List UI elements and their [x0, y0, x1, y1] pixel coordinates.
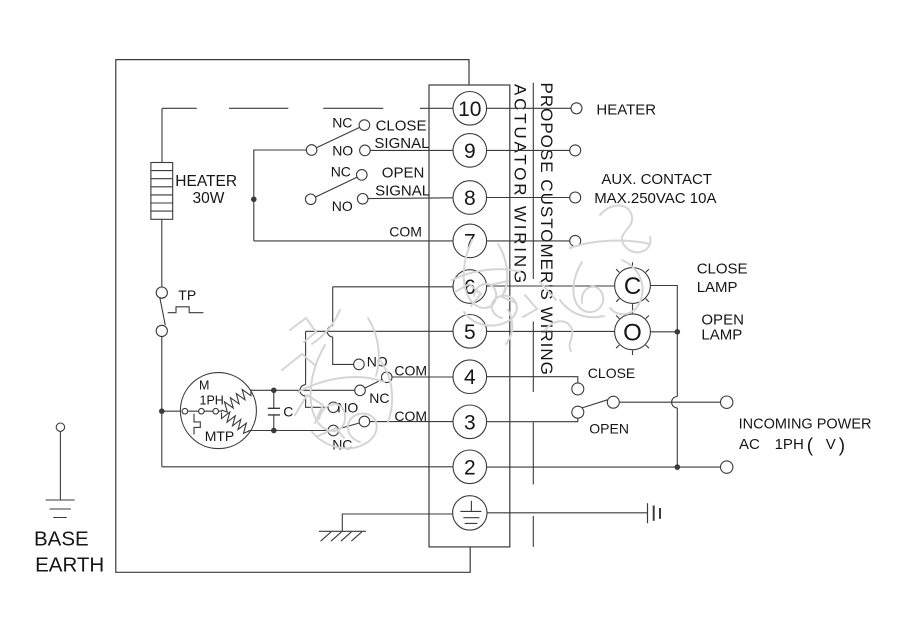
svg-text:NC: NC: [332, 114, 352, 130]
svg-text:NC: NC: [369, 390, 389, 406]
open lamp O: [615, 309, 651, 355]
svg-text:V: V: [826, 436, 836, 453]
wire terminal 6 to close lamp: [487, 285, 615, 287]
svg-text:HEATER: HEATER: [596, 102, 656, 119]
svg-text:10: 10: [458, 98, 481, 121]
svg-text:4: 4: [464, 366, 476, 389]
motor thermal MTP symbol: [194, 414, 200, 435]
svg-text:EARTH: EARTH: [35, 553, 104, 576]
motor M1 1PH: [180, 373, 256, 449]
customer stub circle aux2: [570, 192, 581, 203]
motor winding lower: [222, 412, 250, 433]
svg-text:COM: COM: [389, 224, 422, 240]
hop over terminal5 wire: [327, 326, 333, 337]
wire lamp bus: [650, 286, 677, 468]
direction switch S4 to terminal 3: [328, 402, 370, 436]
wire terminal 3 to open contact: [487, 418, 578, 422]
hop lamp bus over power wire: [672, 397, 678, 408]
wire terminal 9 right: [487, 149, 570, 151]
svg-text:1PH: 1PH: [200, 394, 224, 408]
terminal ground symbol: [460, 501, 481, 524]
svg-text:C: C: [624, 273, 641, 300]
wire motor bottom to NC: [249, 430, 329, 432]
junction dot power bus: [675, 464, 681, 470]
actuator enclosure outline: [116, 60, 470, 573]
wire heater to TP: [161, 219, 163, 287]
svg-text:MTP: MTP: [205, 428, 235, 444]
wire ground right: [487, 512, 647, 514]
svg-text:9: 9: [464, 140, 476, 163]
svg-text:SIGNAL: SIGNAL: [374, 135, 429, 152]
wire terminal 7 right: [487, 240, 570, 242]
heater R1 30W resistor: [151, 163, 173, 220]
thermal protector TP switch: [156, 287, 167, 337]
watermark overlay: [282, 205, 651, 448]
svg-text:C: C: [283, 404, 293, 420]
terminal block outline: [429, 85, 510, 547]
wire TP to terminal 2 run: [161, 337, 163, 467]
junction dot capacitor bottom: [271, 428, 277, 434]
earth symbol right (bars): [648, 503, 661, 523]
wire COM3 to terminal 3: [370, 421, 453, 423]
wire terminal 5 to open lamp: [487, 330, 615, 332]
svg-text:INCOMING POWER: INCOMING POWER: [739, 417, 872, 433]
wire terminal 2 left: [162, 466, 453, 468]
earth symbol left (hatched): [319, 531, 366, 541]
wire heater drop: [161, 108, 163, 162]
junction dot capacitor top: [271, 388, 277, 394]
terminal 3: [453, 405, 487, 439]
wire open NO to terminal 8: [368, 197, 453, 200]
wire dashed heater line to terminal 10: [162, 107, 453, 109]
terminal 10: [453, 92, 487, 126]
motor winding upper: [222, 390, 252, 413]
svg-text:3: 3: [464, 411, 476, 434]
svg-text:OPEN: OPEN: [589, 420, 629, 436]
svg-text:MAX.250VAC 10A: MAX.250VAC 10A: [594, 190, 716, 207]
junction dot TP-motor: [159, 408, 165, 414]
wire close NO to terminal 9: [370, 149, 453, 151]
svg-text:O: O: [623, 320, 642, 347]
customer stub circle aux1: [570, 145, 581, 156]
svg-text:AUX. CONTACT: AUX. CONTACT: [601, 171, 712, 188]
svg-text:AC: AC: [739, 436, 760, 453]
incoming power terminal L: [721, 396, 733, 408]
svg-text:NC: NC: [331, 164, 351, 180]
wire terminal 4 to close contact: [487, 377, 578, 383]
terminal 4: [453, 360, 487, 394]
wire ground left: [342, 514, 453, 531]
svg-text:SIGNAL: SIGNAL: [375, 183, 430, 200]
open signal limit switch S2: [305, 170, 368, 205]
wire close common bus: [254, 150, 306, 241]
wire terminal 8 right: [487, 197, 570, 199]
customer stub circle heater: [571, 103, 582, 114]
selector switch close/open: [572, 383, 620, 418]
hop over motor top wire: [300, 385, 306, 396]
customer stub circle com: [570, 235, 581, 246]
svg-text:CLOSE: CLOSE: [588, 365, 635, 381]
TP pulse symbol: [168, 307, 204, 313]
incoming power terminal N: [721, 461, 733, 473]
separator line between wiring texts: [532, 83, 534, 547]
close lamp C: [615, 262, 651, 308]
svg-text:): ): [839, 436, 845, 457]
close signal limit switch S1: [306, 120, 370, 156]
direction switch S3 to terminal 4: [354, 359, 392, 396]
svg-text:M: M: [199, 379, 209, 393]
svg-text:7: 7: [464, 230, 476, 253]
svg-text:ACTUATOR WIRING: ACTUATOR WIRING: [511, 84, 530, 286]
svg-text:CLOSE: CLOSE: [697, 261, 748, 278]
terminal circles: [453, 92, 487, 531]
svg-text:30W: 30W: [193, 190, 225, 207]
terminal numbers: [458, 98, 481, 480]
svg-text:CLOSE: CLOSE: [376, 118, 427, 135]
svg-text:8: 8: [464, 187, 476, 210]
svg-text:COM: COM: [394, 363, 427, 379]
terminal 9: [453, 134, 487, 168]
svg-text:NO: NO: [332, 143, 353, 159]
svg-text:NC: NC: [332, 437, 352, 453]
svg-text:LAMP: LAMP: [701, 327, 742, 344]
wire open lamp to bus: [650, 331, 677, 333]
junction dot signal common: [251, 197, 257, 203]
terminal 2: [453, 450, 487, 484]
wire terminal 10 right: [487, 107, 571, 109]
terminal 5: [453, 315, 487, 349]
svg-text:NO: NO: [337, 400, 358, 416]
base earth electrode: [46, 423, 75, 518]
wire COM to terminal 7: [254, 240, 453, 242]
wire terminal 6 left with drop to NO4: [333, 287, 453, 365]
svg-text:2: 2: [464, 456, 476, 479]
terminal ground: [453, 496, 487, 530]
junction dot open lamp bus: [675, 329, 681, 335]
wire terminal 2 to power: [487, 466, 721, 468]
svg-text:NO: NO: [332, 198, 353, 214]
svg-text:1PH: 1PH: [775, 436, 804, 453]
terminal 8: [453, 181, 487, 215]
wire motor top to NC: [251, 389, 355, 391]
capacitor C1: [268, 390, 280, 430]
svg-text:LAMP: LAMP: [697, 279, 738, 296]
wire selector common to power: [619, 401, 720, 403]
svg-text:TP: TP: [178, 287, 196, 303]
wire stub to motor: [162, 410, 182, 412]
svg-text:(: (: [807, 436, 814, 457]
svg-text:HEATER: HEATER: [175, 173, 237, 190]
svg-text:5: 5: [464, 321, 476, 344]
wire terminal 5 left with drop to NO3: [306, 331, 453, 407]
terminal 7: [453, 224, 487, 258]
svg-text:BASE: BASE: [34, 528, 89, 551]
svg-text:OPEN: OPEN: [382, 165, 425, 182]
terminal 6: [453, 270, 487, 304]
wire COM4 to terminal 4: [392, 376, 453, 378]
